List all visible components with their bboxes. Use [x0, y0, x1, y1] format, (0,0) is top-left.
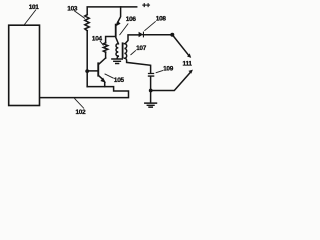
- svg-text:105: 105: [114, 77, 125, 84]
- leader 101: [24, 10, 36, 26]
- junction dot output node: [170, 33, 174, 37]
- leader 104: [100, 41, 104, 46]
- ground G2 bars: [145, 103, 157, 107]
- wire left branch: [86, 31, 88, 87]
- leader 103: [74, 11, 85, 19]
- leader lines: [24, 10, 163, 109]
- leader 102: [74, 98, 84, 108]
- svg-text:101: 101: [29, 4, 40, 11]
- wire collector Q106 to transformer primary: [116, 37, 119, 44]
- svg-text:103: 103: [67, 6, 78, 13]
- leader 106: [120, 24, 129, 36]
- leader 108: [144, 21, 155, 30]
- capacitor C109 plates: [148, 74, 155, 77]
- svg-text:104: 104: [92, 35, 103, 42]
- leader 105: [105, 74, 114, 79]
- transistor Q105 bar: [97, 62, 99, 76]
- leader 109: [156, 70, 163, 72]
- box 101: [9, 25, 40, 105]
- svg-text:107: 107: [136, 45, 147, 52]
- resistor R103: [85, 15, 89, 31]
- leader 107: [131, 50, 136, 55]
- resistor R104: [103, 43, 108, 53]
- wire secondary bottom lead to capacitor: [126, 58, 151, 73]
- wire top output diagonal: [172, 35, 189, 56]
- wire capacitor bottom lead: [150, 77, 152, 91]
- wire secondary top lead to diode: [125, 35, 138, 44]
- transistor Q105 emitter line: [99, 75, 104, 81]
- transformer T107 primary winding: [116, 44, 118, 57]
- output arrowhead bottom: [188, 70, 193, 74]
- junction dot base Q105: [85, 69, 89, 73]
- wire bottom right to output: [151, 72, 191, 90]
- svg-text:102: 102: [76, 109, 87, 116]
- svg-text:109: 109: [163, 66, 174, 73]
- transistor Q105 emitter arrowhead: [100, 78, 106, 83]
- transformer T107 core: [122, 43, 124, 57]
- diode D108: [139, 32, 144, 38]
- ground G1 stem: [116, 56, 119, 58]
- ground G2 stem: [150, 91, 152, 103]
- svg-text:111: 111: [183, 60, 193, 67]
- wire emitter lead Q105: [104, 82, 106, 86]
- wire collector Q105: [99, 58, 105, 64]
- svg-text:106: 106: [126, 16, 137, 23]
- wire 102 bottom routing: [40, 87, 128, 98]
- transistor Q106 bar: [115, 24, 117, 37]
- transformer T107 secondary winding: [124, 44, 126, 59]
- wire top rail: [87, 7, 137, 15]
- wire base Q105: [87, 70, 97, 72]
- wire emitter drop Q106: [117, 7, 120, 23]
- transistor Q106 emitter arrowhead: [116, 21, 121, 26]
- output arrowhead top: [187, 53, 191, 58]
- junction dot capacitor node: [149, 89, 153, 93]
- wire resistor R104 top lead and base Q106: [106, 37, 115, 43]
- ground G1 bars: [112, 59, 122, 64]
- svg-text:108: 108: [156, 16, 167, 23]
- svg-text:++: ++: [142, 1, 150, 10]
- wire diode to output node: [143, 34, 172, 36]
- wire resistor R104 bottom lead: [105, 52, 107, 58]
